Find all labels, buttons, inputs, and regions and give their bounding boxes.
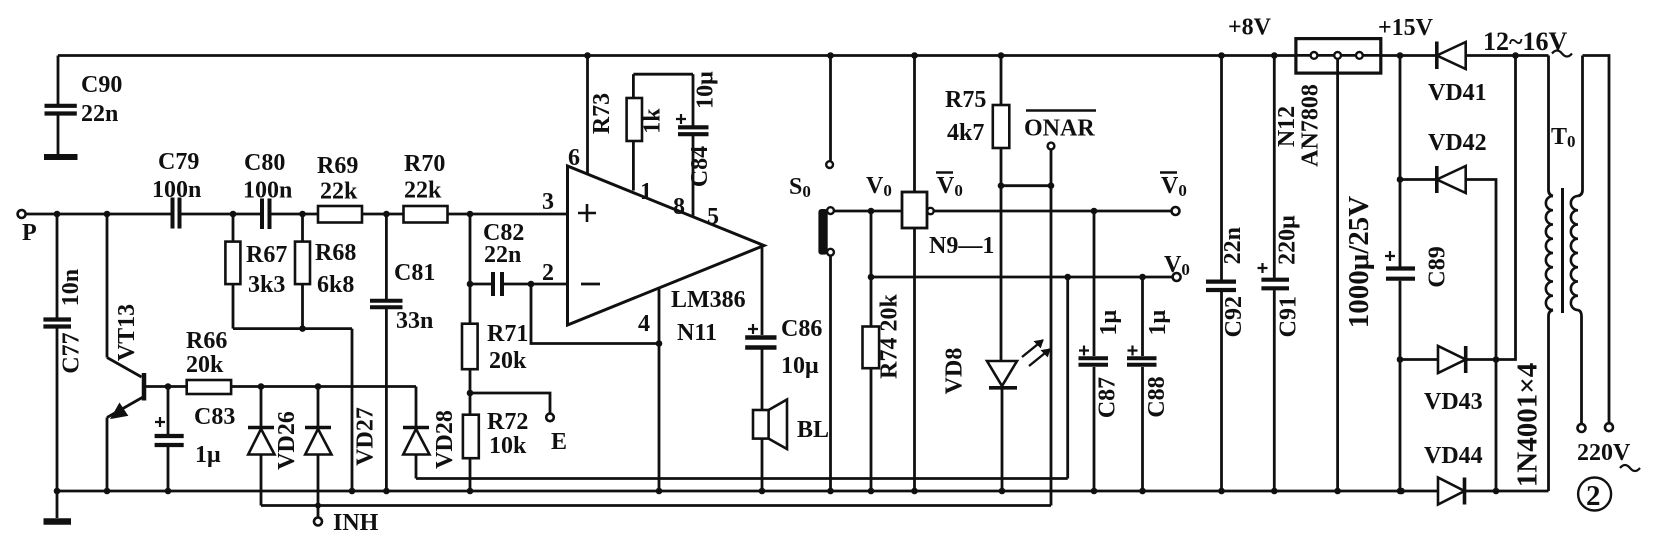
svg-text:10k: 10k <box>489 433 527 459</box>
capacitor C89 column <box>1385 56 1415 492</box>
svg-text:R74 20k: R74 20k <box>877 294 903 379</box>
node junction C81 ground <box>383 488 390 495</box>
switch S0 <box>818 56 833 492</box>
svg-text:ONAR: ONAR <box>1024 116 1095 142</box>
svg-text:20k: 20k <box>186 352 224 378</box>
node junction R74 ground <box>868 488 875 495</box>
svg-text:VD44: VD44 <box>1424 443 1483 469</box>
node junction S0 ground <box>827 488 834 495</box>
svg-text:R69: R69 <box>317 153 358 179</box>
node 220V terminal right <box>1605 423 1613 431</box>
svg-text:4: 4 <box>638 311 650 337</box>
svg-text:R73: R73 <box>589 93 615 134</box>
wire V0 lower line <box>871 276 1173 279</box>
svg-text:5: 5 <box>707 204 719 230</box>
svg-text:C86: C86 <box>781 316 822 342</box>
node junction R71 R72 E <box>467 390 474 397</box>
node junction C91 ground <box>1271 488 1278 495</box>
node junction VD26 top <box>258 383 265 390</box>
wire top supply rail <box>58 54 1549 57</box>
node INH terminal <box>314 518 322 526</box>
capacitor C88 <box>1127 277 1157 491</box>
resistor R68 <box>295 214 310 329</box>
IC N9-1 box <box>902 56 934 492</box>
svg-text:C90: C90 <box>81 72 122 98</box>
node junction C91 rail <box>1271 52 1278 59</box>
svg-text:N11: N11 <box>677 320 717 346</box>
svg-text:20k: 20k <box>489 348 527 374</box>
node junction C82 tap <box>467 281 474 288</box>
capacitor C91 <box>1258 56 1290 492</box>
transformer T0 core <box>1561 188 1564 313</box>
diode VD42 <box>1400 166 1496 491</box>
svg-text:22n: 22n <box>1220 227 1246 264</box>
node junction 1068 V0 line <box>1064 274 1071 281</box>
resistor R66 <box>187 380 231 394</box>
diode VD26 first <box>248 387 275 506</box>
wire ONAR link <box>1001 184 1051 187</box>
ground for C90 <box>44 154 78 160</box>
node junction VD26b top <box>315 383 322 390</box>
diode VD43 <box>1400 56 1516 374</box>
LED VD8 <box>987 340 1050 491</box>
svg-text:33n: 33n <box>396 308 433 334</box>
capacitor C77 <box>43 214 71 491</box>
svg-text:R71: R71 <box>487 321 528 347</box>
svg-text:1μ: 1μ <box>195 442 221 468</box>
node junction N9-1 rail <box>911 52 918 59</box>
svg-text:C88: C88 <box>1144 376 1170 417</box>
capacitor C84 <box>676 74 709 217</box>
wire riser 1068 to V0 line <box>1066 277 1069 479</box>
diode VD26 second <box>305 387 332 519</box>
capacitor C92 <box>1206 56 1236 492</box>
svg-text:INH: INH <box>333 510 379 536</box>
node 220V terminal left <box>1578 424 1586 432</box>
svg-text:+15V: +15V <box>1378 15 1434 41</box>
svg-text:VT13: VT13 <box>114 304 140 361</box>
node junction C89 rail <box>1397 52 1404 59</box>
resistor R72 <box>463 415 479 491</box>
loudspeaker BL <box>753 400 787 492</box>
svg-text:VD8: VD8 <box>942 348 968 395</box>
svg-text:C81: C81 <box>394 260 435 286</box>
node junction VD42 column ground <box>1493 488 1500 495</box>
wire ONAR column <box>1050 149 1053 505</box>
transformer T0 primary winding <box>1571 56 1609 424</box>
capacitor C87 <box>1079 211 1109 491</box>
svg-text:3: 3 <box>542 189 554 215</box>
node junction C87 ground <box>1091 488 1098 495</box>
svg-text:22n: 22n <box>81 101 118 127</box>
loudspeaker branch: output wire <box>761 247 764 336</box>
node junction C89 VD42 <box>1397 176 1404 183</box>
capacitor C81 <box>370 214 403 491</box>
node junction C88 ground <box>1139 488 1146 495</box>
IC N12 AN7808 regulator box <box>1296 39 1381 491</box>
svg-text:C91: C91 <box>1276 296 1302 337</box>
resistor R74 <box>863 327 880 492</box>
wire R73 C84 top link <box>633 73 693 76</box>
capacitor C79 <box>173 198 180 229</box>
svg-text:100n: 100n <box>243 178 292 204</box>
svg-text:C89: C89 <box>1425 246 1451 287</box>
svg-text:+8V: +8V <box>1228 15 1272 41</box>
wire V0bar line <box>934 210 1172 213</box>
node junction pin6 rail <box>584 52 591 59</box>
wire pin6 to rail <box>586 56 589 175</box>
wire R66 output line <box>231 385 416 388</box>
op-amp plus <box>578 204 596 222</box>
resistor R69 <box>318 206 362 223</box>
wire ground rail <box>55 490 1549 493</box>
wire pin2 feedback <box>531 284 659 344</box>
node junction AN7808 ground <box>1334 488 1341 495</box>
svg-text:1μ: 1μ <box>1096 310 1122 336</box>
capacitor C90 <box>45 56 77 155</box>
svg-text:6k8: 6k8 <box>317 272 354 298</box>
wire R74 column <box>870 211 873 327</box>
node junction VT13 emitter ground <box>104 488 111 495</box>
node junction VD44 left <box>1398 488 1405 495</box>
node junction pin4 ground <box>656 488 663 495</box>
svg-text:22k: 22k <box>320 179 358 205</box>
svg-text:2: 2 <box>542 260 554 286</box>
node junction R68 main <box>299 211 306 218</box>
wire pin4 column <box>658 288 661 491</box>
wire VT13 base line <box>146 385 187 388</box>
node junction R67 main <box>230 211 237 218</box>
resistor R70 <box>404 206 448 223</box>
node junction feedback pin4 <box>656 340 663 347</box>
svg-text:R67: R67 <box>246 242 287 268</box>
svg-text:1N4001×4: 1N4001×4 <box>1512 363 1544 487</box>
node junction R75 ONAR link <box>998 182 1005 189</box>
svg-text:VD41: VD41 <box>1428 80 1487 106</box>
node junction C83 base line <box>165 383 172 390</box>
wire R67 R68 bottom link <box>233 327 352 330</box>
node junction R75 rail <box>998 52 1005 59</box>
ground symbol bottom left <box>44 491 72 522</box>
svg-text:C80: C80 <box>244 150 285 176</box>
svg-text:22k: 22k <box>404 178 442 204</box>
node junction 352 ground <box>349 488 356 495</box>
node junction C92 ground <box>1218 488 1225 495</box>
node junction C89 VD43 <box>1397 356 1404 363</box>
svg-text:P: P <box>22 220 37 246</box>
node junction R72 ground <box>467 488 474 495</box>
svg-text:R70: R70 <box>404 151 445 177</box>
op-amp minus <box>581 283 600 286</box>
svg-text:10μ: 10μ <box>693 71 719 109</box>
wire E branch <box>470 393 550 414</box>
svg-text:N12: N12 <box>1274 106 1300 147</box>
node junction S0 rail <box>827 52 834 59</box>
svg-text:220V: 220V <box>1577 440 1631 466</box>
svg-text:BL: BL <box>797 417 829 443</box>
node junction R68 bottom <box>299 325 306 332</box>
svg-text:C83: C83 <box>194 404 235 430</box>
diode VD41 <box>1437 42 1466 70</box>
resistor R73 <box>627 74 642 190</box>
svg-text:C87: C87 <box>1095 377 1121 418</box>
svg-text:E: E <box>551 429 567 455</box>
svg-text:C84: C84 <box>687 146 713 187</box>
node V0 terminal <box>1173 273 1181 281</box>
node ONAR terminal <box>1048 143 1055 150</box>
capacitor C86 <box>745 324 776 410</box>
wire INH line <box>261 504 1051 507</box>
svg-text:8: 8 <box>673 194 685 220</box>
svg-text:1μ: 1μ <box>1145 310 1171 336</box>
node junction C81 main <box>383 211 390 218</box>
node junction C89 ground <box>1397 488 1404 495</box>
node E terminal <box>546 414 554 422</box>
node junction C83 ground <box>165 488 172 495</box>
transformer T0 secondary winding <box>1546 56 1553 492</box>
svg-text:VD28: VD28 <box>432 410 458 469</box>
wire VD28 bottom line to 1068 <box>416 477 1068 480</box>
node junction pin2 <box>528 281 535 288</box>
node junction C77 main <box>54 211 61 218</box>
svg-text:220μ: 220μ <box>1275 215 1301 265</box>
svg-text:1k: 1k <box>640 108 666 134</box>
node junction VD8 ground <box>999 488 1006 495</box>
svg-text:LM386: LM386 <box>671 287 746 313</box>
node junction R74 V0line <box>868 208 875 215</box>
resistor R67 <box>225 214 240 329</box>
svg-text:C79: C79 <box>158 149 199 175</box>
svg-text:100n: 100n <box>152 177 201 203</box>
node junction C77 ground <box>54 488 61 495</box>
op-amp N11 LM386 triangle <box>568 166 765 325</box>
svg-text:R68: R68 <box>315 240 356 266</box>
node V0bar terminal <box>1172 207 1180 215</box>
svg-text:R75: R75 <box>945 87 986 113</box>
svg-text:2: 2 <box>1586 480 1601 512</box>
svg-text:AN7808: AN7808 <box>1298 84 1324 167</box>
svg-text:6: 6 <box>568 145 580 171</box>
node junction BL ground <box>759 488 766 495</box>
resistor R75 <box>993 56 1010 362</box>
svg-text:VD26: VD26 <box>274 411 300 470</box>
node junction C88 V0 <box>1139 274 1146 281</box>
diode VD44 <box>1438 478 1465 505</box>
node P terminal <box>18 210 26 218</box>
capacitor C80 <box>262 199 270 230</box>
transistor VT13 <box>107 214 144 491</box>
svg-text:22n: 22n <box>484 242 521 268</box>
svg-text:3k3: 3k3 <box>248 272 285 298</box>
node junction C82 main <box>467 211 474 218</box>
node junction VT13 collector main <box>104 211 111 218</box>
svg-text:C77: C77 <box>59 332 85 373</box>
svg-text:VD43: VD43 <box>1424 389 1483 415</box>
node junction VD42 column VD43 line <box>1493 356 1500 363</box>
node junction N9-1 ground <box>911 488 918 495</box>
capacitor C83 <box>155 387 184 492</box>
svg-text:R66: R66 <box>186 328 227 354</box>
node junction C92 rail <box>1218 52 1225 59</box>
node junction VD41 rail right <box>1512 52 1519 59</box>
svg-text:4k7: 4k7 <box>947 120 984 146</box>
diode VD28 <box>403 387 430 479</box>
node junction R74 V0 lower line <box>868 274 875 281</box>
svg-text:10n: 10n <box>58 269 84 306</box>
wire V0 line into N9-1 <box>834 210 902 213</box>
svg-text:C92: C92 <box>1221 296 1247 337</box>
node junction INH <box>315 503 321 509</box>
svg-text:N9—1: N9—1 <box>929 233 994 259</box>
wire main input signal line <box>26 213 568 216</box>
svg-text:VD42: VD42 <box>1428 130 1487 156</box>
svg-text:10μ: 10μ <box>781 353 819 379</box>
capacitor C82 <box>470 214 568 296</box>
svg-text:R72: R72 <box>487 409 528 435</box>
node junction C87 V0bar <box>1091 208 1098 215</box>
node junction ONAR link <box>1048 182 1055 189</box>
svg-text:1: 1 <box>640 179 652 205</box>
resistor R71 <box>462 284 478 415</box>
wire R67R68 to ground <box>351 329 354 491</box>
figure number 2 circled <box>1578 478 1611 511</box>
svg-text:VD27: VD27 <box>353 407 379 466</box>
svg-text:1000μ/25V: 1000μ/25V <box>1343 196 1375 328</box>
